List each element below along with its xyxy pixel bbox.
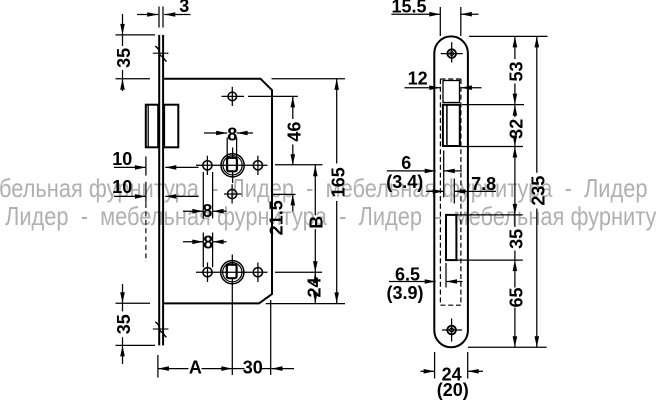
dimension 6 (3.4) xyxy=(386,153,462,192)
svg-text:35: 35 xyxy=(114,314,134,334)
dimension B xyxy=(307,165,327,272)
dimension 35 top xyxy=(114,14,134,91)
extension line plate edges below right view xyxy=(435,352,468,379)
svg-text:A: A xyxy=(189,357,202,377)
latch housing (inside body) xyxy=(164,105,178,148)
left hole of lower row xyxy=(203,263,212,283)
svg-text:21.5: 21.5 xyxy=(266,200,286,235)
dimension chain 53-32-35-65 xyxy=(507,36,527,347)
follower row centerline xyxy=(196,164,268,166)
svg-text:12: 12 xyxy=(408,69,428,89)
svg-text:30: 30 xyxy=(243,357,263,377)
top hole extension line right xyxy=(248,95,298,97)
extension line follower below xyxy=(231,294,233,376)
svg-text:32: 32 xyxy=(507,119,527,139)
follower (spindle hub) lower xyxy=(221,255,244,294)
dimension 8 bottom (hole diameter) xyxy=(183,232,227,267)
dimension 235 xyxy=(528,36,548,347)
follower (spindle hub) upper xyxy=(221,148,244,184)
dimension 12 xyxy=(405,69,482,90)
faceplate front view xyxy=(434,36,468,347)
chain boundary deadbolt bottom xyxy=(456,259,522,261)
body top edge extension right xyxy=(272,78,346,80)
svg-text:24: 24 xyxy=(304,277,324,297)
dimension 10 upper xyxy=(112,149,198,175)
deadbolt cutout xyxy=(446,215,456,260)
dimension 15.5 xyxy=(391,0,478,17)
top screw hole xyxy=(441,42,463,62)
dimension 24 left view xyxy=(304,272,324,303)
svg-text:8: 8 xyxy=(202,201,212,221)
dimension 21.5 xyxy=(266,194,295,235)
lock case hidden outline (dashed) xyxy=(440,79,461,305)
right hole of lower row xyxy=(253,263,262,283)
svg-text:3: 3 xyxy=(179,0,189,16)
lower hole extension right xyxy=(272,193,296,195)
dimension 6.5 (3.9) xyxy=(386,263,462,303)
faceplate side view bar xyxy=(159,35,163,346)
lower row extension right xyxy=(275,271,322,273)
svg-text:46: 46 xyxy=(284,122,304,142)
dimension 8 top (follower square) xyxy=(204,124,253,157)
latch cutout xyxy=(443,105,460,146)
svg-text:8: 8 xyxy=(227,124,237,144)
lower follower row centerline xyxy=(196,271,268,273)
bottom screw hole xyxy=(442,319,462,342)
dimension 35 bottom xyxy=(114,284,134,364)
watermark row 1 xyxy=(0,175,648,201)
dimension 30 xyxy=(232,357,294,377)
dimension 24 (20) bottom xyxy=(421,365,484,400)
watermark row 2 xyxy=(5,203,656,229)
dimension 46 xyxy=(284,96,304,165)
extension line body-right below xyxy=(270,300,272,375)
svg-text:(20): (20) xyxy=(437,380,469,400)
dimension 7.8 xyxy=(426,151,496,204)
chain boundary bottom xyxy=(468,346,547,348)
svg-text:165: 165 xyxy=(328,167,348,197)
follower row extension right xyxy=(275,164,322,166)
latch bolt (left of faceplate) xyxy=(146,105,158,148)
dimension 15.5 extension lines xyxy=(440,7,461,36)
chain boundary deadbolt top xyxy=(456,214,522,216)
svg-text:(3.9): (3.9) xyxy=(386,283,423,303)
latch well upper rectangle xyxy=(443,81,460,103)
chain boundary line top xyxy=(469,35,548,37)
svg-text:8: 8 xyxy=(203,232,213,252)
svg-text:10: 10 xyxy=(112,149,132,169)
svg-text:35: 35 xyxy=(114,48,134,68)
svg-text:65: 65 xyxy=(507,287,527,307)
dimension 35 top boundary lines xyxy=(116,35,156,79)
dimension 3 arrows and label xyxy=(137,0,191,17)
lock body outline xyxy=(164,79,272,304)
body bottom edge extension right xyxy=(266,303,345,305)
dimension 35 bottom boundary lines xyxy=(116,303,156,345)
svg-text:(3.4): (3.4) xyxy=(386,172,423,192)
svg-text:B: B xyxy=(307,216,327,229)
dimension 10 lower xyxy=(112,177,198,203)
break mark top xyxy=(153,46,169,62)
lower hole xyxy=(224,184,242,203)
chain boundary latch bottom xyxy=(460,146,523,148)
dimension A xyxy=(158,357,232,377)
extension line plate-left below xyxy=(157,355,159,378)
chain boundary latch top xyxy=(462,104,524,106)
dimension 8 middle (hole diameter) xyxy=(183,172,227,221)
right hole of follower row xyxy=(253,156,262,175)
left hole of follower row xyxy=(203,156,212,175)
svg-text:35: 35 xyxy=(507,229,527,249)
svg-text:235: 235 xyxy=(528,176,548,206)
dimension 165 xyxy=(328,79,348,304)
svg-text:10: 10 xyxy=(112,177,132,197)
break mark bottom xyxy=(153,322,169,338)
dashed reference line xyxy=(145,203,147,262)
dimension 3 (faceplate thickness) extension lines xyxy=(159,7,163,28)
svg-text:53: 53 xyxy=(507,61,527,81)
top hole xyxy=(222,87,245,106)
svg-text:6: 6 xyxy=(401,153,411,173)
